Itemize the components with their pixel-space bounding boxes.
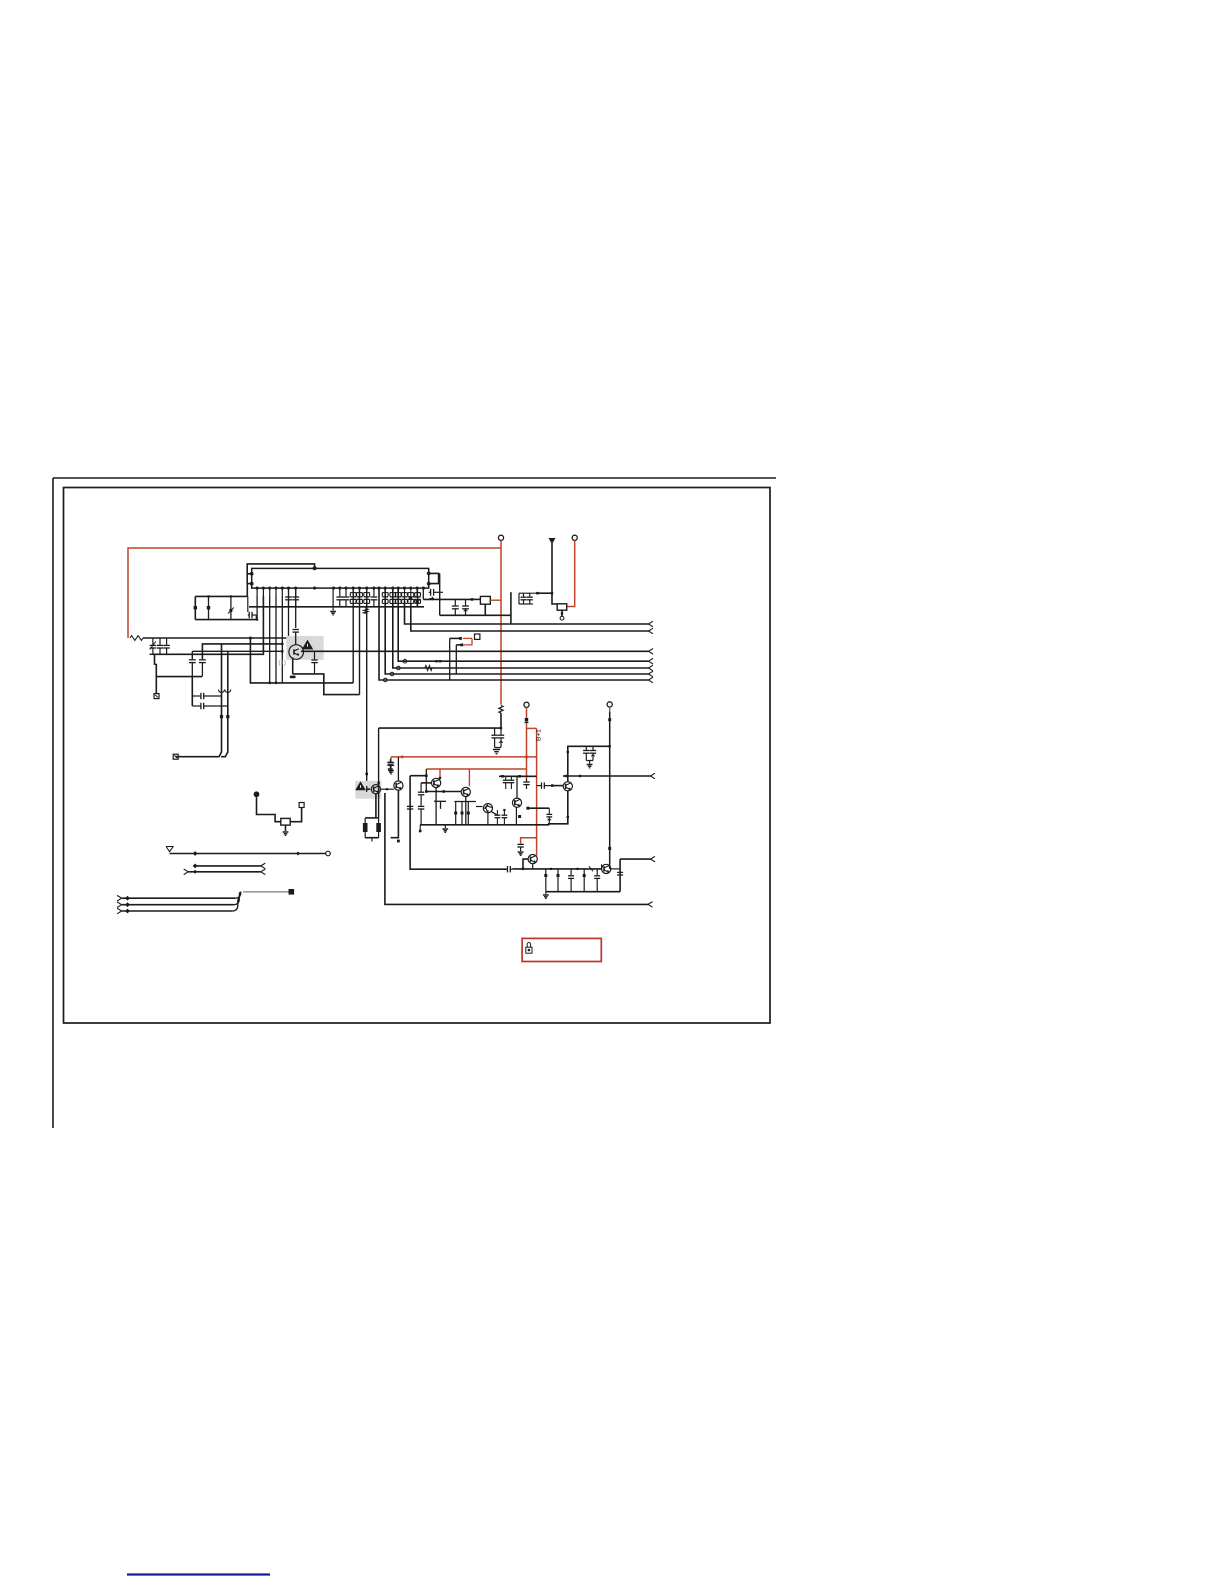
wire gray link: [243, 891, 288, 893]
schematic inner border: [64, 488, 771, 1024]
wire box1 bottom stub: [484, 604, 486, 615]
stub T open: [434, 801, 446, 809]
capacitor C16: [388, 763, 394, 774]
cap-bank lower rail: [249, 606, 424, 608]
hang C32: [568, 869, 574, 892]
twin vertical bus b: [221, 651, 228, 756]
wire cluster bottom rail2: [546, 891, 620, 893]
ground G rail: [442, 825, 448, 833]
junction dot jog a: [459, 637, 462, 640]
wire Q2 base: [367, 786, 371, 792]
wire link x449: [450, 638, 461, 680]
wire bundle y911: [117, 908, 232, 914]
capacitor C11 at U1 right: [429, 589, 443, 596]
net red P4 drop: [526, 707, 528, 779]
junction square b: [226, 715, 229, 718]
ground G rail2: [543, 892, 549, 899]
transistor Q3a: [394, 781, 403, 790]
capacitor C23: [503, 776, 509, 789]
transistor Q3: [432, 778, 441, 787]
component box B2: [557, 604, 567, 610]
component box B3: [281, 818, 290, 825]
capacitor C28 pair: [583, 746, 596, 768]
svg-text:(1): (1): [279, 661, 286, 667]
series capacitor C29: [507, 866, 513, 872]
net red box1 stub: [490, 599, 501, 601]
capacitor C15 pair with ground: [491, 728, 504, 754]
terminal dot P6: [254, 791, 260, 797]
net VCC red highlight top loop: [128, 548, 501, 638]
U1 pin 2: [250, 582, 253, 585]
bus east y859: [620, 856, 655, 862]
resistor R3: [376, 818, 381, 838]
wire H y776 caps row: [499, 775, 537, 778]
wire Q6 top: [516, 776, 518, 798]
wire R bottom down: [371, 838, 373, 842]
wire x426 drop: [425, 769, 428, 793]
junction dot below rail: [419, 825, 422, 833]
wire B3 right: [290, 808, 301, 822]
wire bus y651 left: [192, 651, 282, 659]
diamond mark a: [193, 851, 198, 856]
wire pin drop x366 to Q2: [365, 589, 368, 786]
wire Q5 links: [476, 807, 498, 816]
wire pin drop x276: [275, 596, 277, 684]
capacitor C9 above Q1: [293, 630, 299, 645]
wire box2 bottom pin: [560, 610, 564, 620]
transistor Q2: [371, 785, 380, 794]
terminal P5: [607, 702, 612, 707]
U1 pin2 tap: [247, 583, 250, 585]
capacitor C14 pair: [519, 593, 538, 604]
net red elbow bottom: [521, 838, 537, 844]
node ring y674: [390, 672, 394, 676]
input capacitor trio C2-C4: [150, 638, 170, 654]
terminal P4: [524, 702, 529, 707]
resistor drop Ra: [454, 802, 457, 825]
wire pin drop x379 east: [379, 589, 653, 683]
hang C31: [557, 869, 560, 892]
wire Q3 emitter: [435, 788, 437, 825]
series capacitor C7: [192, 693, 221, 699]
diode D2 on bus: [435, 660, 441, 662]
twin vertical bus a: [176, 644, 222, 757]
wire Q4 emitter: [465, 797, 467, 825]
left bank top rail: [195, 595, 247, 597]
wire U1 to left bank: [246, 584, 248, 597]
transistor Q1: [289, 645, 304, 660]
wire Q7 top: [567, 746, 610, 781]
highlight box K1: [522, 938, 601, 961]
hang C33: [583, 869, 586, 892]
diamond mark b: [296, 852, 300, 856]
wire Q3 base link: [421, 782, 431, 784]
wire B3 bottom: [285, 825, 287, 831]
component box B1: [480, 596, 490, 604]
wire Q3a top: [397, 757, 399, 781]
net red H2 y769: [426, 768, 526, 770]
inductor L1: [130, 636, 143, 641]
capacitor C17 on red: [523, 779, 529, 789]
junction dots under U1: [409, 597, 419, 603]
U1 right pin b: [427, 582, 430, 585]
resistor drop Rc: [467, 802, 470, 825]
label (1): [279, 661, 286, 667]
capacitor C35: [617, 870, 623, 876]
ground stub under rail: [330, 589, 336, 615]
capacitor C20 left of Q3: [418, 783, 424, 825]
wire Q6 east elbow: [526, 807, 549, 810]
capacitor C24: [509, 776, 515, 789]
junction square a: [220, 715, 223, 718]
rail y615: [440, 614, 511, 616]
wire Q3 top red dot: [439, 777, 441, 779]
callout shade box 1: [286, 636, 323, 660]
node ring y680: [384, 678, 388, 682]
capacitor group C mid: [350, 589, 369, 607]
wire bundle merge: [232, 892, 241, 911]
wire pin drop x257: [256, 596, 258, 621]
left bank left edge: [194, 596, 196, 619]
wire C14 to P3 drop: [538, 592, 554, 594]
label B+1: [536, 729, 543, 741]
junction dot jog b: [460, 644, 463, 647]
wire Q1 collector bus: [301, 649, 653, 655]
wire box outline left: [385, 793, 653, 907]
wire to Q7 base: [552, 785, 563, 787]
svg-text:B+1: B+1: [536, 729, 543, 741]
junction dot box2: [561, 612, 563, 614]
wire rail2 up: [619, 859, 621, 892]
wire R1 bottom: [500, 713, 502, 729]
net red H1 y757: [391, 756, 537, 759]
wire bundle y898: [117, 895, 235, 901]
op-amp U1 body: [252, 568, 429, 588]
hang C30: [544, 869, 547, 892]
inductor L2 on bus: [425, 666, 432, 671]
wire P6 path: [257, 797, 281, 822]
wire y866: [193, 863, 266, 869]
terminal T SQ2: [173, 754, 178, 759]
capacitor C25: [495, 810, 501, 825]
wire top link outline: [410, 775, 426, 777]
wire line A branch down: [250, 638, 353, 683]
wire pin drop x385 east: [385, 589, 653, 677]
capacitor group C right: [382, 589, 420, 607]
wire H y791: [426, 790, 461, 793]
wire pin drop x269: [269, 596, 271, 684]
warning triangle W1: [302, 640, 312, 649]
resistor R2: [363, 818, 368, 838]
terminal P1: [498, 535, 503, 540]
capacitor C18 on red bottom: [517, 844, 523, 855]
transistor Q4: [461, 787, 470, 796]
wire pin drop x288: [287, 596, 289, 653]
U1 pin 1: [250, 572, 253, 575]
cap C26b electrolytic: [546, 808, 552, 825]
diode D3 on red: [525, 718, 529, 723]
capacitor C L1: [194, 596, 197, 619]
lock icon: [526, 942, 532, 953]
capacitor C L2: [207, 596, 210, 619]
wire pin drop x282: [281, 596, 283, 683]
wire pin drop x404 east: [405, 601, 654, 627]
net red vertical to R burst: [500, 541, 502, 705]
wire Q1 emitter: [292, 658, 294, 674]
series capacitor C8: [192, 703, 228, 709]
wire mid branch: [156, 676, 202, 678]
wire cap top link: [423, 589, 472, 599]
capacitor C6: [199, 660, 206, 677]
capacitor C5: [189, 660, 196, 677]
net red P5 stub: [609, 707, 611, 712]
junction dot left bank b: [230, 595, 232, 597]
decoupling capacitors row: [285, 589, 420, 607]
transistor Q7: [563, 782, 572, 791]
wire T cluster H y869: [512, 868, 601, 870]
wire pin drop x410 east: [411, 604, 653, 634]
capacitor C19: [387, 759, 393, 772]
node ring y661: [403, 659, 407, 663]
ferrite bead FB1: [364, 607, 368, 614]
wire line A from L1: [143, 637, 292, 646]
capacitor C20b on outline: [407, 806, 413, 809]
net red H1 left drop: [390, 757, 392, 763]
warning triangle W2: [356, 782, 365, 790]
symbol small arrow: [430, 597, 434, 601]
terminal P3 antenna triangle: [549, 538, 556, 544]
transistor Q5 rotated: [481, 802, 494, 815]
left bank bottom rail: [195, 619, 256, 621]
terminal T SQ4: [299, 803, 304, 808]
wire link x456: [456, 645, 462, 674]
terminal square P7: [289, 889, 295, 895]
footer link underline: [127, 1573, 270, 1575]
diode D4 marks: [550, 866, 593, 871]
U1 top-left extension: [247, 564, 314, 584]
wire Q2-Q3 link: [381, 788, 394, 790]
wire bundle y905: [117, 902, 233, 908]
net red jog to right: [527, 727, 537, 729]
wire box outline inner: [410, 776, 506, 870]
ferrite bead FB2: [219, 690, 231, 693]
wire box1 lead: [472, 598, 480, 600]
wire from P3 down: [552, 543, 557, 604]
wire R2R3 top: [365, 817, 378, 819]
U1 bottom pin row: [256, 587, 425, 589]
wire pin drop x295 to Q1: [295, 596, 297, 628]
wire H y801: [454, 801, 476, 803]
node circle end: [326, 851, 331, 856]
wire cap trio to terminal: [155, 654, 157, 693]
U1 right pin a: [427, 572, 430, 575]
wire H y728: [379, 727, 501, 729]
callout shade box 2: [355, 781, 381, 799]
wire Q6 drop: [516, 807, 521, 825]
junction dot C link: [471, 598, 474, 601]
ground G B3: [283, 832, 289, 835]
wire y872: [184, 869, 266, 875]
U1 top pin: [313, 567, 316, 570]
wire pin drop x359: [359, 589, 361, 694]
wire Q3a emitter: [391, 790, 400, 842]
wire x378 drop: [377, 728, 379, 818]
terminal T SQ1: [154, 694, 159, 699]
wire cluster base rail: [420, 824, 549, 826]
wire pin drop x263: [153, 596, 264, 654]
terminal T SQ3: [475, 634, 480, 639]
resistor drop Rb: [461, 802, 464, 825]
ground triangle inverted: [166, 847, 173, 852]
net red drop to Q4: [468, 769, 470, 786]
node ring y668: [397, 666, 401, 670]
transistor Q8: [528, 855, 537, 864]
wire pin drop x353: [352, 589, 354, 683]
U1 left pin stubs: [257, 589, 296, 596]
wire R2R3 bottom: [365, 837, 378, 839]
wire rail corner down: [510, 592, 512, 624]
wire Q9 to vertical: [602, 864, 621, 869]
terminal P2: [572, 535, 577, 540]
zener Z1 mark: [150, 642, 156, 650]
transistor Q9: [602, 864, 611, 873]
resistor R1: [499, 706, 503, 714]
wire Q8 links: [522, 859, 533, 870]
wire pin drop x398 east: [398, 589, 653, 664]
wire Q5 emitter: [487, 813, 489, 825]
wire Q7 emitter path: [548, 791, 569, 824]
series capacitor on bank lower-right: [248, 596, 256, 619]
transistor Q6: [512, 798, 521, 807]
capacitor C12: [452, 599, 459, 615]
junction dot C14: [536, 592, 539, 595]
hang C34: [594, 869, 600, 892]
bus east y776: [563, 773, 655, 779]
net red drop to Q3: [439, 769, 441, 778]
diode D L3: [228, 596, 234, 619]
capacitor C26: [502, 809, 508, 825]
wire pin drop x392 east: [393, 589, 653, 671]
wire gray1 bottom: [292, 674, 359, 695]
wire U1 right edge drop: [439, 573, 441, 615]
capacitor C13 electrolytic: [462, 599, 469, 615]
wire main right vertical: [608, 712, 611, 869]
net red jog: [463, 638, 472, 645]
capacitor C10: [311, 651, 317, 674]
page frame outer left rule: [52, 478, 54, 1128]
wire Q2 emitter chain: [375, 794, 377, 818]
page frame outer top rule: [53, 477, 776, 479]
junction dot left bank a: [207, 595, 209, 597]
wire bus y644: [202, 644, 282, 659]
series capacitor C27: [537, 782, 554, 788]
U1 right outer tap: [430, 573, 439, 583]
wire C6 down: [191, 677, 193, 706]
net red right vertical: [536, 728, 538, 855]
U1 pin1 tap: [247, 573, 250, 575]
net red vertical P2: [567, 541, 575, 607]
wire long y853: [170, 853, 326, 855]
ground G Q1: [290, 676, 296, 679]
